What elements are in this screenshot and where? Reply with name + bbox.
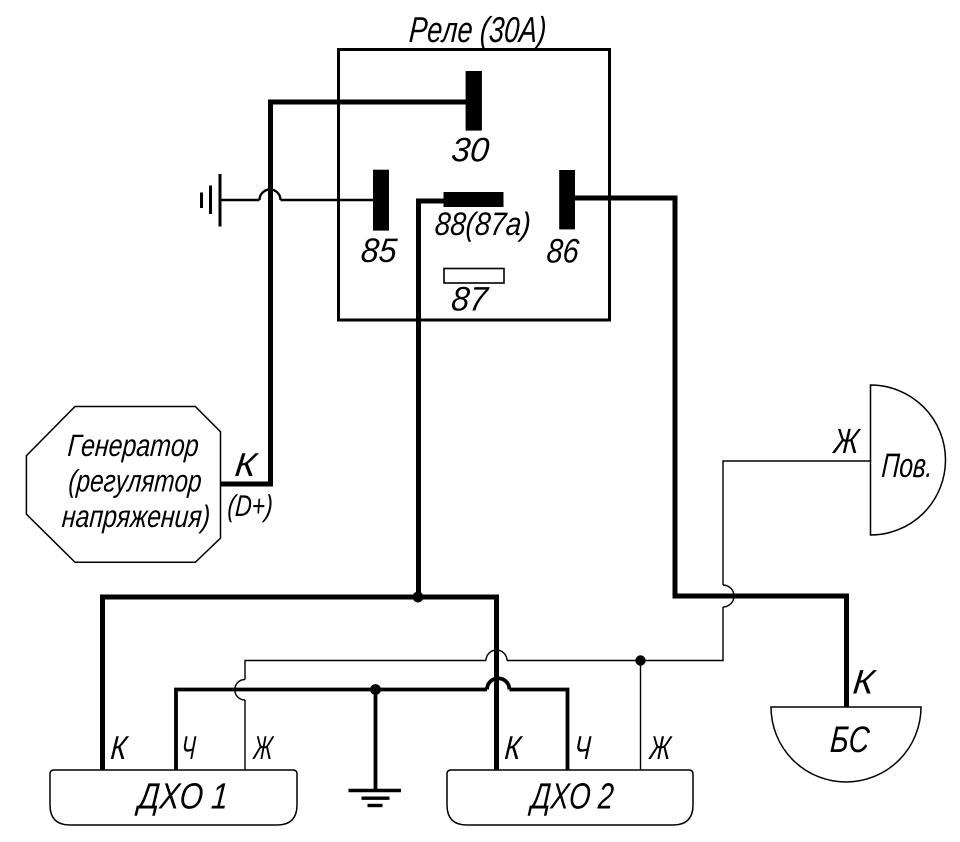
relay K1 pin 88(87a) terminal	[444, 192, 504, 207]
junction: ground bus to ground stem	[370, 684, 381, 695]
wire: relay pin 88(87a) down to DRL supply bus	[419, 201, 445, 597]
wire label К at БС	[853, 670, 877, 693]
wire: black ground bus ДХО1 Ч to ДХО2 Ч (hop over ДХО2 К wire)	[176, 678, 568, 771]
DRL module ДХО1 name label	[134, 783, 225, 816]
lamp Пов. name label	[882, 454, 929, 478]
node label К (D+) at generator output	[228, 453, 271, 522]
relay K1 pin 86 terminal	[559, 170, 575, 229]
ground GND2 (chassis ground under ground stem)	[349, 791, 402, 806]
ДХО2 terminal label К	[505, 736, 523, 759]
relay K1 body (Реле 30А)	[339, 50, 610, 321]
ДХО1 terminal label Ч	[184, 736, 197, 759]
ДХО2 terminal label Ч	[577, 736, 591, 759]
wire label Ж at Пов.	[832, 429, 861, 453]
relay K1 pin 87 terminal (unused, open rectangle)	[444, 269, 504, 284]
relay K1 pin 87 number label	[452, 287, 490, 311]
ДХО1 terminal label Ж	[252, 736, 274, 759]
ДХО1 terminal label К	[111, 736, 129, 759]
generator G1 name "Генератор (регулятор напряжения)"	[62, 435, 209, 534]
DRL module ДХО2 body	[447, 770, 693, 825]
DRL module ДХО1 body	[50, 770, 297, 825]
ДХО2 terminal label Ж	[648, 736, 673, 759]
wire: relay pin 30 to generator K (D+)	[219, 102, 467, 484]
relay K1 pin 86 number label	[547, 239, 579, 263]
wire: relay pin 86 to БС К terminal	[575, 198, 847, 709]
relay K1 value label "Реле (30А)"	[409, 16, 545, 50]
DRL module ДХО2 name label	[528, 783, 614, 816]
wire: DRL supply bus to ДХО1 К and ДХО2 К terminals	[103, 597, 497, 771]
wire: Ж net branch down to ДХО2 Ж terminal	[640, 661, 642, 772]
lamp БС (half-disc)	[771, 707, 921, 782]
ground GND1 (chassis ground left of relay)	[202, 174, 221, 227]
relay K1 pin 85 terminal	[373, 170, 389, 231]
wire: relay pin 85 to ground GND1 (thin, hop over pin30 wire)	[221, 190, 373, 201]
relay K1 pin 85 number label	[362, 238, 398, 262]
junction: Ж net branch to ДХО2 Ж	[635, 655, 645, 665]
generator G1 body (octagon)	[26, 407, 220, 563]
junction: pin 88 wire joins DRL supply bus	[413, 592, 424, 603]
relay K1 pin 88(87a) number label	[435, 212, 529, 242]
lamp БС name label	[830, 726, 870, 752]
relay K1 pin 30 terminal	[466, 71, 482, 131]
lamp Пов. (turn signal, half-disc)	[871, 385, 946, 535]
wire: ground stem down to chassis ground GND2	[374, 690, 378, 790]
relay K1 pin 30 number label	[452, 138, 489, 162]
wire: Ж net from ДХО1 Ж up and over to Пов. (thin, three hops)	[235, 461, 870, 771]
